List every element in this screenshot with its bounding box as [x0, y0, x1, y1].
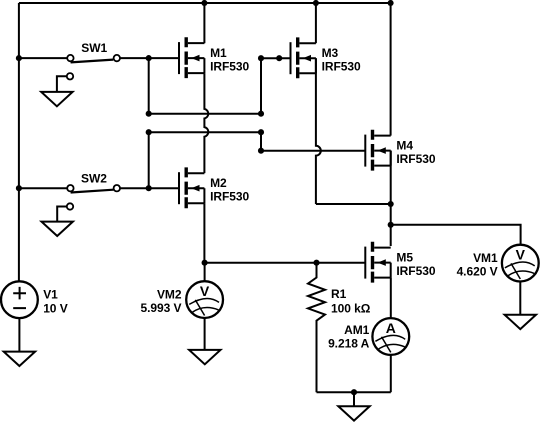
wire: V1 bottom to ground — [18, 318, 20, 352]
wire: VM2 node to M5 gate — [205, 262, 366, 264]
node: M3 gate wire joint — [276, 55, 282, 61]
svg-text:IRF530: IRF530 — [322, 59, 361, 73]
svg-text:A: A — [386, 320, 396, 336]
wire: across to x261 (M4 gate net) — [149, 131, 261, 133]
node: M1 drain / top rail — [201, 0, 207, 6]
wire: bottom return (R1 to AM1) — [317, 391, 391, 393]
node: SW1 / M1 gate — [146, 55, 152, 61]
wire: top rail down to M4 drain — [390, 3, 392, 136]
svg-text:IRF530: IRF530 — [396, 264, 435, 278]
svg-text:SW1: SW1 — [81, 41, 107, 55]
node: corner x261 M4 gate — [258, 148, 264, 154]
node: VM2 / M5 gate — [202, 260, 208, 266]
wire: left power rail — [18, 3, 20, 281]
node: corner x148 gate1 net — [146, 111, 152, 117]
node: return / ground — [351, 389, 357, 395]
svg-text:SW2: SW2 — [81, 171, 107, 185]
node: M5 drain / VM1 — [388, 222, 394, 228]
svg-text:VM1: VM1 — [473, 251, 498, 265]
wire: return stem to ground — [353, 392, 355, 406]
wire: SW2 to M2 gate — [120, 187, 179, 189]
wire: VM2 node down to voltmeter — [204, 263, 206, 282]
wire: VM1 bottom to ground — [519, 282, 521, 315]
svg-text:M1: M1 — [210, 46, 227, 60]
ground (V1) — [4, 352, 35, 366]
wire: gate node down (net to M3 gate) — [148, 58, 150, 114]
ground (SW2 throw) — [42, 222, 73, 236]
ground (SW1 throw) — [41, 92, 72, 106]
transistor M4 (IRF530) — [365, 130, 436, 171]
svg-text:M4: M4 — [396, 139, 413, 153]
voltage source V1 (10 V) — [1, 281, 68, 318]
node: M3 source / M4 source — [388, 201, 394, 207]
svg-text:M2: M2 — [210, 176, 227, 190]
svg-text:IRF530: IRF530 — [210, 59, 249, 73]
svg-text:VM2: VM2 — [157, 288, 182, 302]
svg-text:5.993 V: 5.993 V — [140, 301, 181, 315]
svg-text:IRF530: IRF530 — [396, 152, 435, 166]
wire: M5 drain node to VM1 — [391, 225, 521, 245]
wire: SW1 to M1 gate — [120, 57, 179, 59]
switch SW1 — [67, 41, 120, 79]
wire: M2 source down to VM2 node — [203, 203, 205, 263]
ground (output return) — [338, 406, 369, 420]
wire: SW1 unused throw to ground — [57, 76, 67, 92]
wire: top supply rail — [19, 2, 391, 4]
ammeter AM1 (9.218 A) — [372, 318, 409, 355]
svg-text:M5: M5 — [396, 251, 413, 265]
svg-text:V: V — [200, 283, 210, 299]
wire: M1 drain to top rail — [203, 3, 205, 43]
node: rail / SW1 — [16, 55, 22, 61]
node: M3 drain / top rail — [313, 0, 319, 6]
node: top-right corner — [388, 0, 394, 6]
svg-text:9.218 A: 9.218 A — [328, 337, 370, 351]
node: R1 top — [313, 260, 319, 266]
node: corner x261 lower gate1 net — [258, 111, 264, 117]
wire: rail to SW2 pole — [19, 187, 67, 189]
svg-text:10 V: 10 V — [43, 301, 68, 315]
wire: across to x261 — [149, 113, 261, 115]
wire: M2 gate node up — [148, 132, 150, 188]
wire: M3 source down then right to M4 source rail — [316, 58, 391, 204]
svg-text:100 kΩ: 100 kΩ — [331, 302, 371, 316]
wire: up to M3 gate level and across — [261, 58, 291, 113]
ground (VM2) — [189, 350, 220, 364]
transistor M5 (IRF530) — [365, 242, 436, 283]
svg-text:M3: M3 — [322, 46, 339, 60]
wire: rail to SW1 pole — [19, 57, 67, 59]
node: SW2 / M2 gate — [146, 185, 152, 191]
wire: M3 drain to top rail — [315, 3, 317, 43]
svg-text:4.620 V: 4.620 V — [457, 264, 498, 278]
wire: VM2 bottom to ground — [204, 318, 206, 350]
ground (VM1) — [505, 315, 536, 329]
node: corner x148 gate2 net — [146, 129, 152, 135]
wire: AM1 bottom to return — [390, 355, 392, 392]
wire: SW2 unused throw to ground — [57, 207, 67, 222]
svg-text:V1: V1 — [43, 288, 58, 302]
switch SW2 — [67, 171, 120, 209]
voltmeter VM1 (4.620 V) — [502, 245, 539, 282]
wire: M5 source down to AM1 — [390, 278, 392, 319]
wire: M4 source down to M5 drain — [390, 151, 392, 246]
voltmeter VM2 (5.993 V) — [186, 281, 223, 318]
node: corner x261 gate1 net — [258, 55, 264, 61]
svg-text:V: V — [516, 246, 526, 262]
svg-text:IRF530: IRF530 — [210, 189, 249, 203]
node: corner x261 gate2 net — [258, 129, 264, 135]
transistor M2 (IRF530) — [179, 167, 250, 208]
wire: M1 source down to M2 drain (hops over two wires) — [204, 73, 208, 173]
svg-text:R1: R1 — [331, 287, 347, 301]
wire: down and across to M4 gate (hops over M3 source) — [261, 132, 365, 151]
svg-text:AM1: AM1 — [344, 323, 370, 337]
transistor M1 (IRF530) — [179, 37, 250, 78]
resistor R1 (100 kOhm) — [308, 263, 371, 393]
transistor M3 (IRF530) — [291, 37, 362, 78]
node: rail / SW2 — [16, 185, 22, 191]
